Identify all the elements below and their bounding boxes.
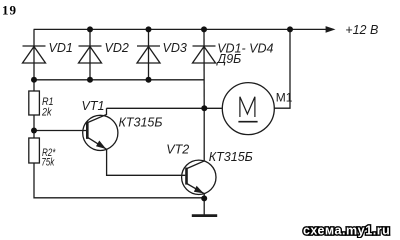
svg-text:VT2: VT2	[166, 143, 189, 157]
node emitter-ground	[201, 195, 207, 201]
svg-text:VD2: VD2	[105, 41, 129, 55]
wire R1-R2 link	[33, 115, 35, 138]
diode VD3	[137, 46, 160, 63]
node rail2 VD2	[87, 77, 93, 83]
node rail2 VD3	[146, 77, 152, 83]
node R1-R2 base	[31, 128, 37, 134]
diode VD2	[79, 46, 102, 63]
wire base VT1	[34, 130, 86, 132]
ground	[192, 198, 217, 216]
node top VD2	[87, 26, 93, 32]
wire VD2 vertical	[89, 29, 91, 79]
arrow +12V	[326, 26, 336, 33]
node top VD3	[146, 26, 152, 32]
wire top rail	[34, 28, 327, 30]
svg-text:75k: 75k	[41, 157, 54, 169]
wire VD3 vertical	[148, 29, 150, 79]
diode VD1	[23, 46, 46, 63]
svg-text:КТ315Б: КТ315Б	[209, 150, 253, 164]
svg-text:VD3: VD3	[163, 41, 187, 55]
svg-text:M1: M1	[276, 91, 293, 105]
wire motor right to +12V rail	[274, 29, 290, 108]
wire left drop to VD1	[33, 29, 35, 79]
svg-text:схема.my1.ru: схема.my1.ru	[303, 223, 390, 237]
node collector-motor	[201, 105, 207, 111]
wire R1 top lead	[33, 80, 35, 91]
resistor R1	[29, 91, 40, 115]
resistor R2	[29, 138, 40, 163]
transistor VT2	[182, 108, 216, 198]
motor M1	[222, 83, 274, 135]
node rail2 left	[31, 77, 37, 83]
wire VT1 emitter down and right to VT2 base	[107, 149, 186, 175]
svg-text:2k: 2k	[41, 106, 52, 118]
wire collector rail VT1-motor	[107, 107, 223, 109]
svg-text:VD1: VD1	[49, 41, 73, 55]
wire VD4 vertical (continues to collector node)	[203, 29, 205, 108]
node top VD4	[201, 26, 207, 32]
diode VD4	[193, 46, 216, 63]
svg-text:Д9Б: Д9Б	[215, 52, 241, 66]
wire R2 bottom to ground rail	[34, 163, 204, 198]
svg-text:19: 19	[2, 2, 17, 17]
svg-text:КТ315Б: КТ315Б	[119, 115, 163, 129]
wire second rail	[34, 79, 204, 81]
svg-text:+12 В: +12 В	[345, 23, 378, 37]
transistor VT1	[83, 108, 118, 150]
node top +12V branch	[287, 26, 293, 32]
svg-text:VT1: VT1	[82, 99, 105, 113]
